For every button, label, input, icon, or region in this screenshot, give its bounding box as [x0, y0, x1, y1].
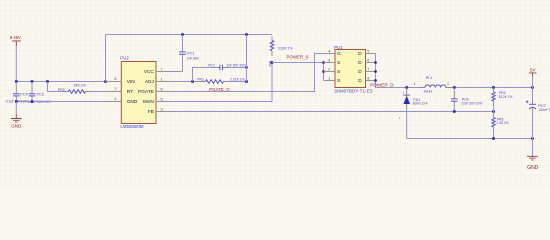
pin PU1.6 D stub — [366, 62, 376, 64]
wire bottom ground rail — [407, 138, 533, 140]
node junction PR5 bottom — [492, 137, 495, 140]
resistor PR4 — [492, 88, 495, 112]
pin PU1.1 S stub — [324, 80, 336, 82]
wire VCC to PC1 — [171, 61, 183, 72]
svg-text:LM5085MM: LM5085MM — [120, 124, 144, 129]
pin PU1.5 D stub — [366, 53, 376, 55]
pin PU2.3 FB stub — [156, 111, 171, 113]
wire GND line — [16, 101, 106, 103]
node junction diode tap — [405, 86, 408, 89]
pin PU1.7 D stub — [366, 71, 376, 73]
svg-text:2uF 80V: 2uF 80V — [187, 56, 200, 60]
wire riser to top rail — [105, 35, 107, 82]
svg-text:PU1: PU1 — [334, 45, 343, 50]
power port 5V — [529, 68, 537, 77]
capacitor PC1 — [179, 35, 186, 61]
svg-text:GND: GND — [527, 165, 539, 171]
svg-text:ISEN: ISEN — [143, 99, 155, 105]
wire FB net — [171, 111, 494, 113]
wire POWER_D to inductor — [376, 87, 419, 89]
svg-text:9-48V: 9-48V — [10, 35, 21, 40]
svg-text:S: S — [337, 60, 340, 66]
pin PU1.8 D stub — [366, 80, 376, 82]
node junction D pin7 — [374, 70, 377, 73]
svg-text:0.02R 1%: 0.02R 1% — [278, 47, 293, 51]
node junction PC4 bottom — [15, 100, 18, 103]
svg-text:S: S — [337, 78, 340, 84]
pin PU2.2 RT stub — [106, 91, 121, 93]
svg-text:10uH: 10uH — [423, 89, 432, 93]
svg-text:GND: GND — [127, 99, 138, 105]
svg-text:POWER_S: POWER_S — [287, 54, 309, 59]
wire 5V drop — [532, 77, 534, 88]
node junction PC3 bottom — [31, 100, 34, 103]
svg-text:220uF 1: 220uF 1 — [539, 108, 550, 112]
svg-text:B370-13-F: B370-13-F — [413, 102, 428, 106]
svg-text:D: D — [358, 69, 362, 75]
svg-text:PC1: PC1 — [187, 51, 194, 55]
node junction RC cap right — [245, 66, 248, 69]
pin PU2.5 ISEN stub — [156, 101, 171, 103]
node junction ADJ branch — [191, 80, 194, 83]
svg-text:D: D — [358, 51, 362, 57]
wire ISEN net — [171, 63, 272, 102]
wire riser ADJ RC to top rail — [246, 35, 248, 82]
svg-text:VIN: VIN — [127, 79, 136, 85]
svg-text:Si9407BDY-T1-E3: Si9407BDY-T1-E3 — [334, 89, 373, 94]
wire POWER_S to PU1 sources — [272, 62, 324, 64]
svg-text:VCC: VCC — [144, 69, 155, 75]
svg-text:FB: FB — [148, 109, 154, 115]
capacitor PC2 — [215, 65, 228, 70]
pin PU2.6 PGATE stub — [156, 91, 171, 93]
node junction 5V tap — [531, 86, 534, 89]
svg-text:1: 1 — [161, 77, 163, 82]
svg-text:7: 7 — [161, 67, 163, 72]
svg-text:D: D — [358, 60, 362, 66]
inductor PL1 — [419, 85, 452, 88]
svg-text:POWER_D: POWER_D — [370, 83, 394, 88]
node junction S pin3 — [322, 61, 325, 64]
capacitor PC6 — [451, 88, 458, 112]
svg-text:RT: RT — [127, 89, 133, 95]
resistor PR5 — [492, 112, 495, 139]
node junction input/VIN rail — [15, 80, 18, 83]
wire ADJ to RC network — [171, 81, 201, 83]
resistor PR1 sense — [270, 37, 273, 57]
svg-text:PC2: PC2 — [208, 64, 215, 68]
svg-text:3: 3 — [161, 107, 163, 112]
pin PU1.4 G stub — [324, 53, 336, 55]
node junction POWER_S — [271, 61, 274, 64]
svg-text:2: 2 — [114, 86, 116, 91]
diode PD1 — [399, 88, 410, 139]
node junction D pin6 — [374, 61, 377, 64]
wire output rail — [452, 87, 533, 89]
node junction S pin2 — [322, 70, 325, 73]
svg-text:2: 2 — [328, 66, 330, 71]
svg-text:PC3: PC3 — [37, 93, 44, 97]
power port 9-48V — [10, 35, 21, 46]
node junction ADJ RC on top rail — [245, 33, 248, 36]
svg-text:PGATE_G: PGATE_G — [209, 87, 230, 92]
ground GND right — [527, 155, 539, 171]
wire source bus bar — [323, 63, 326, 81]
svg-text:PC4: PC4 — [20, 93, 27, 97]
capacitor PC3 — [29, 82, 36, 102]
svg-text:D: D — [358, 78, 362, 84]
svg-text:8: 8 — [114, 76, 116, 81]
wire VIN rail — [16, 81, 105, 83]
svg-text:G: G — [337, 51, 341, 57]
regulator PU2 LM5085 body — [121, 62, 156, 124]
wire PGATE net — [171, 54, 324, 92]
svg-text:6: 6 — [367, 57, 369, 62]
svg-text:1: 1 — [414, 82, 416, 86]
wire PC2 parallel loop — [193, 68, 247, 82]
pin PU2.4 GND stub — [106, 101, 121, 103]
svg-text:7: 7 — [367, 66, 369, 71]
pin PU1.3 S stub — [324, 62, 336, 64]
wire RT branch vertical — [48, 82, 64, 92]
transistor PU1 Si9407 body — [335, 50, 366, 88]
pin PU2.7 VCC stub — [156, 71, 171, 73]
pin PU2.1 ADJ stub — [156, 81, 171, 83]
node junction PC1 on top rail — [181, 33, 184, 36]
node junction PC6 top — [453, 86, 456, 89]
node junction D pin8 — [374, 79, 377, 82]
node junction PR4 top — [492, 86, 495, 89]
svg-text:33.2K 1%: 33.2K 1% — [499, 95, 513, 99]
node junction RC right — [245, 80, 248, 83]
svg-text:2.4K 1%: 2.4K 1% — [497, 121, 509, 125]
svg-text:PL1: PL1 — [426, 76, 433, 80]
svg-text:PGATE: PGATE — [138, 89, 154, 95]
resistor PR2 — [201, 80, 229, 84]
svg-text:5V: 5V — [530, 68, 537, 73]
wire PR2 to riser — [229, 81, 247, 83]
svg-text:3: 3 — [328, 57, 330, 62]
wire top rail — [106, 34, 273, 36]
wire PR3 to RT pin — [91, 91, 106, 93]
svg-text:2: 2 — [447, 82, 449, 86]
svg-text:22uF 50V 20%: 22uF 50V 20% — [461, 102, 482, 106]
svg-text:6: 6 — [161, 87, 163, 92]
wire GND drop — [15, 102, 17, 115]
node junction PC7 bottom — [531, 137, 534, 140]
svg-text:5: 5 — [161, 97, 163, 102]
wire drain bus bar — [375, 54, 377, 88]
capacitor PC4 — [13, 82, 20, 102]
svg-text:1nF 50V 20%: 1nF 50V 20% — [227, 64, 246, 68]
capacitor PC7 polarized — [526, 88, 536, 139]
node junction FB divider mid — [492, 110, 495, 113]
ground GND left — [11, 114, 22, 129]
resistor PR3 — [63, 90, 91, 94]
svg-text:GND: GND — [11, 124, 22, 129]
svg-text:5: 5 — [367, 48, 369, 53]
wire GND right drop — [532, 139, 534, 156]
node junction PC6 bottom on FB line — [453, 110, 456, 113]
svg-text:ADJ: ADJ — [145, 79, 155, 85]
node junction riser to top rail — [104, 80, 107, 83]
svg-text:249 1%: 249 1% — [74, 84, 87, 88]
svg-text:8: 8 — [367, 76, 369, 80]
svg-text:PR2: PR2 — [197, 78, 204, 82]
svg-text:1: 1 — [328, 75, 330, 80]
wire input 9-48V down to VIN rail — [15, 46, 17, 82]
pin PU1.2 S stub — [324, 71, 336, 73]
pin PU2.8 VIN stub — [106, 81, 121, 83]
node junction RT branch — [46, 80, 49, 83]
svg-text:PU2: PU2 — [120, 56, 129, 61]
svg-text:S: S — [337, 69, 340, 75]
svg-text:PR3: PR3 — [58, 88, 65, 92]
node junction PC3 top — [31, 80, 34, 83]
